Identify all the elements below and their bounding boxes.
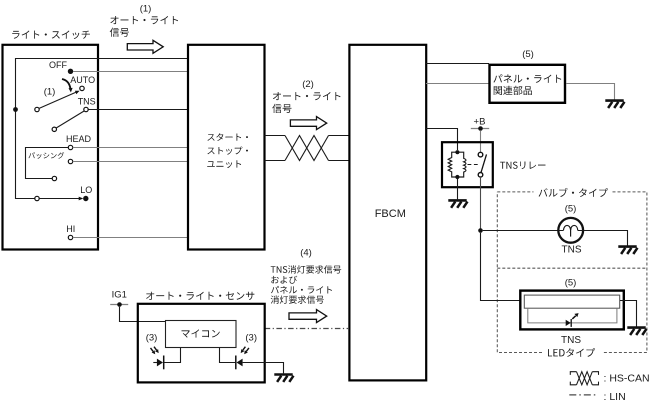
wire: FBCM to panel-light box (gray): [426, 83, 489, 85]
light arrows into PD2: [241, 347, 249, 355]
svg-text:+B: +B: [474, 116, 486, 127]
label (3) left: [146, 333, 158, 344]
contact: passing output: [68, 159, 72, 163]
svg-text:HEAD: HEAD: [66, 134, 92, 144]
svg-text:(3): (3): [146, 333, 158, 344]
label (5) panel light related parts: [522, 49, 534, 60]
svg-text:(4): (4): [300, 247, 312, 258]
wire: passing output to start-stop unit (gray): [73, 161, 188, 163]
photodiode PD2 (right): [220, 348, 265, 370]
svg-text:(3): (3): [245, 333, 257, 344]
svg-text:(5): (5): [522, 49, 534, 60]
svg-text:: HS-CAN: : HS-CAN: [604, 372, 650, 384]
relay mechanical link (dashed): [468, 164, 480, 166]
junction: lamp feed node: [478, 228, 483, 233]
svg-text:TNS: TNS: [561, 335, 581, 346]
light arrows into PD1: [151, 347, 159, 355]
wire: LED lamp to ground: [620, 301, 637, 327]
photodiode PD1 (left): [153, 348, 180, 370]
signal arrow (1): [127, 40, 163, 53]
wire: common bus from light switch to start-stop unit: [16, 59, 189, 110]
wire: +B to relay contact (gray): [480, 131, 482, 153]
contact TNS: [78, 97, 96, 112]
contact HEAD: [66, 134, 92, 150]
contact AUTO: [70, 75, 95, 90]
label (4): TNS off-request and panel-light off-request signals: [271, 247, 342, 303]
label (5) bulb: [565, 203, 577, 214]
arm for TNS: [52, 111, 84, 132]
microcomputer (maikon) box: [166, 321, 237, 348]
label: bulb type (barubu taipu): [539, 188, 608, 197]
start-stop unit box: [188, 45, 265, 250]
wire: relay output down to lamp junction (dark gray): [480, 177, 482, 230]
passing switch bracket and contact: [26, 148, 69, 181]
legend: LIN dash-dot sample: [569, 391, 625, 403]
FBCM box U1: [349, 45, 426, 381]
power source +B: [471, 116, 489, 131]
wire: junction to bulb: [483, 230, 559, 232]
contact HI: [66, 224, 75, 240]
wire: OFF to start-stop unit (gray): [73, 71, 188, 73]
label: auto light sensor: [146, 292, 254, 300]
label (3) right: [245, 333, 257, 344]
signal arrow (2): [290, 117, 326, 130]
signal arrow (4): [289, 310, 327, 323]
LIN bus (dash-dot) sensor to FBCM: [265, 328, 349, 330]
label: (2) auto-light signal: [272, 79, 340, 113]
svg-text:(2): (2): [302, 79, 314, 90]
label: light switch (raito suicchi): [12, 31, 90, 40]
wire: IG1 to microcomputer: [120, 307, 166, 322]
wire: FBCM to panel-light box (upper, black): [426, 63, 489, 65]
wire: FBCM to TNS relay coil: [426, 129, 458, 151]
twisted pair HS-CAN bus between start-stop unit and FBCM: [265, 136, 350, 161]
rotary arm to AUTO with arrowhead: [35, 91, 80, 112]
svg-text:: LIN: : LIN: [604, 391, 626, 402]
svg-text:(5): (5): [565, 277, 577, 288]
svg-text:FBCM: FBCM: [375, 208, 406, 220]
wire: relay coil to ground: [457, 179, 459, 199]
junction: common node: [13, 107, 18, 112]
wire: TNS to start-stop unit: [88, 109, 188, 111]
relay switch contacts and blade: [478, 152, 486, 177]
wire: common bus down to LO row: [16, 110, 35, 199]
label: LED type (LED taipu): [548, 348, 595, 357]
wire: bulb to ground: [583, 231, 627, 246]
label: passing (passhingu): [29, 152, 65, 159]
svg-text:LO: LO: [80, 185, 92, 195]
label: (1) auto-light signal: [110, 3, 178, 37]
svg-text:OFF: OFF: [49, 60, 67, 70]
ground (LED lamp): [627, 328, 646, 335]
light switch SW1 box: [3, 45, 99, 250]
svg-text:(5): (5): [565, 203, 577, 214]
ground (relay coil): [448, 200, 467, 207]
wire: panel box to ground (gray): [566, 84, 615, 100]
wire: junction down to LED lamp: [481, 233, 522, 301]
svg-text:AUTO: AUTO: [70, 75, 95, 85]
wire: sensor to ground: [265, 363, 284, 374]
wire: HEAD to start-stop unit (gray): [73, 147, 188, 149]
dashed enclosure: bulb type / LED type: [497, 192, 647, 353]
relay coil L1: [448, 150, 466, 179]
label (5) LED: [565, 277, 577, 288]
svg-text:IG1: IG1: [112, 290, 127, 301]
ground (panel light): [605, 101, 624, 108]
ground (sensor): [274, 375, 293, 382]
TNS relay box K1: [442, 142, 546, 187]
svg-text:(1): (1): [44, 86, 56, 97]
svg-text:(1): (1): [140, 3, 152, 14]
contact LO with arm: [35, 185, 93, 201]
panel-light related parts box: [490, 65, 566, 103]
svg-text:TNS: TNS: [562, 244, 582, 255]
LED D1 symbol: [566, 313, 579, 327]
svg-text:HI: HI: [66, 224, 75, 234]
power source IG1: [110, 290, 128, 307]
legend: HS-CAN twisted pair symbol: [570, 372, 649, 385]
contact OFF (dot): [49, 60, 73, 74]
wire: HI to start-stop unit (gray): [73, 237, 188, 239]
LED lamp TNS box: [520, 291, 624, 346]
curved arrow (1) rotation indicator: [44, 79, 73, 97]
svg-text:TNS: TNS: [78, 97, 96, 107]
auto light sensor box: [138, 304, 265, 383]
ground (bulb): [618, 247, 637, 254]
bulb TNS (lamp symbol): [558, 218, 583, 255]
